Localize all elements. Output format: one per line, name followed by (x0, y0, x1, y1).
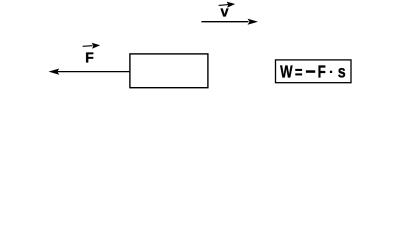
formula text F (318, 63, 326, 82)
velocity arrow head (248, 19, 259, 25)
force arrow head (49, 69, 60, 75)
svg-text:F: F (85, 50, 94, 66)
label v (221, 4, 230, 20)
formula box (276, 60, 352, 83)
vector arrow over v (219, 2, 236, 8)
vector arrow over F (83, 43, 101, 49)
svg-text:F: F (318, 63, 326, 82)
label F (85, 50, 94, 66)
velocity arrow shaft (201, 21, 248, 23)
svg-text:=: = (295, 63, 303, 82)
formula text W (280, 63, 293, 82)
svg-text:s: s (338, 63, 346, 82)
formula text equals (295, 63, 303, 82)
formula text s (338, 63, 346, 82)
block rectangle (130, 54, 208, 88)
formula text minus (306, 70, 315, 73)
formula text dot (330, 71, 332, 73)
force arrow shaft (58, 71, 131, 73)
svg-text:W: W (280, 63, 293, 82)
